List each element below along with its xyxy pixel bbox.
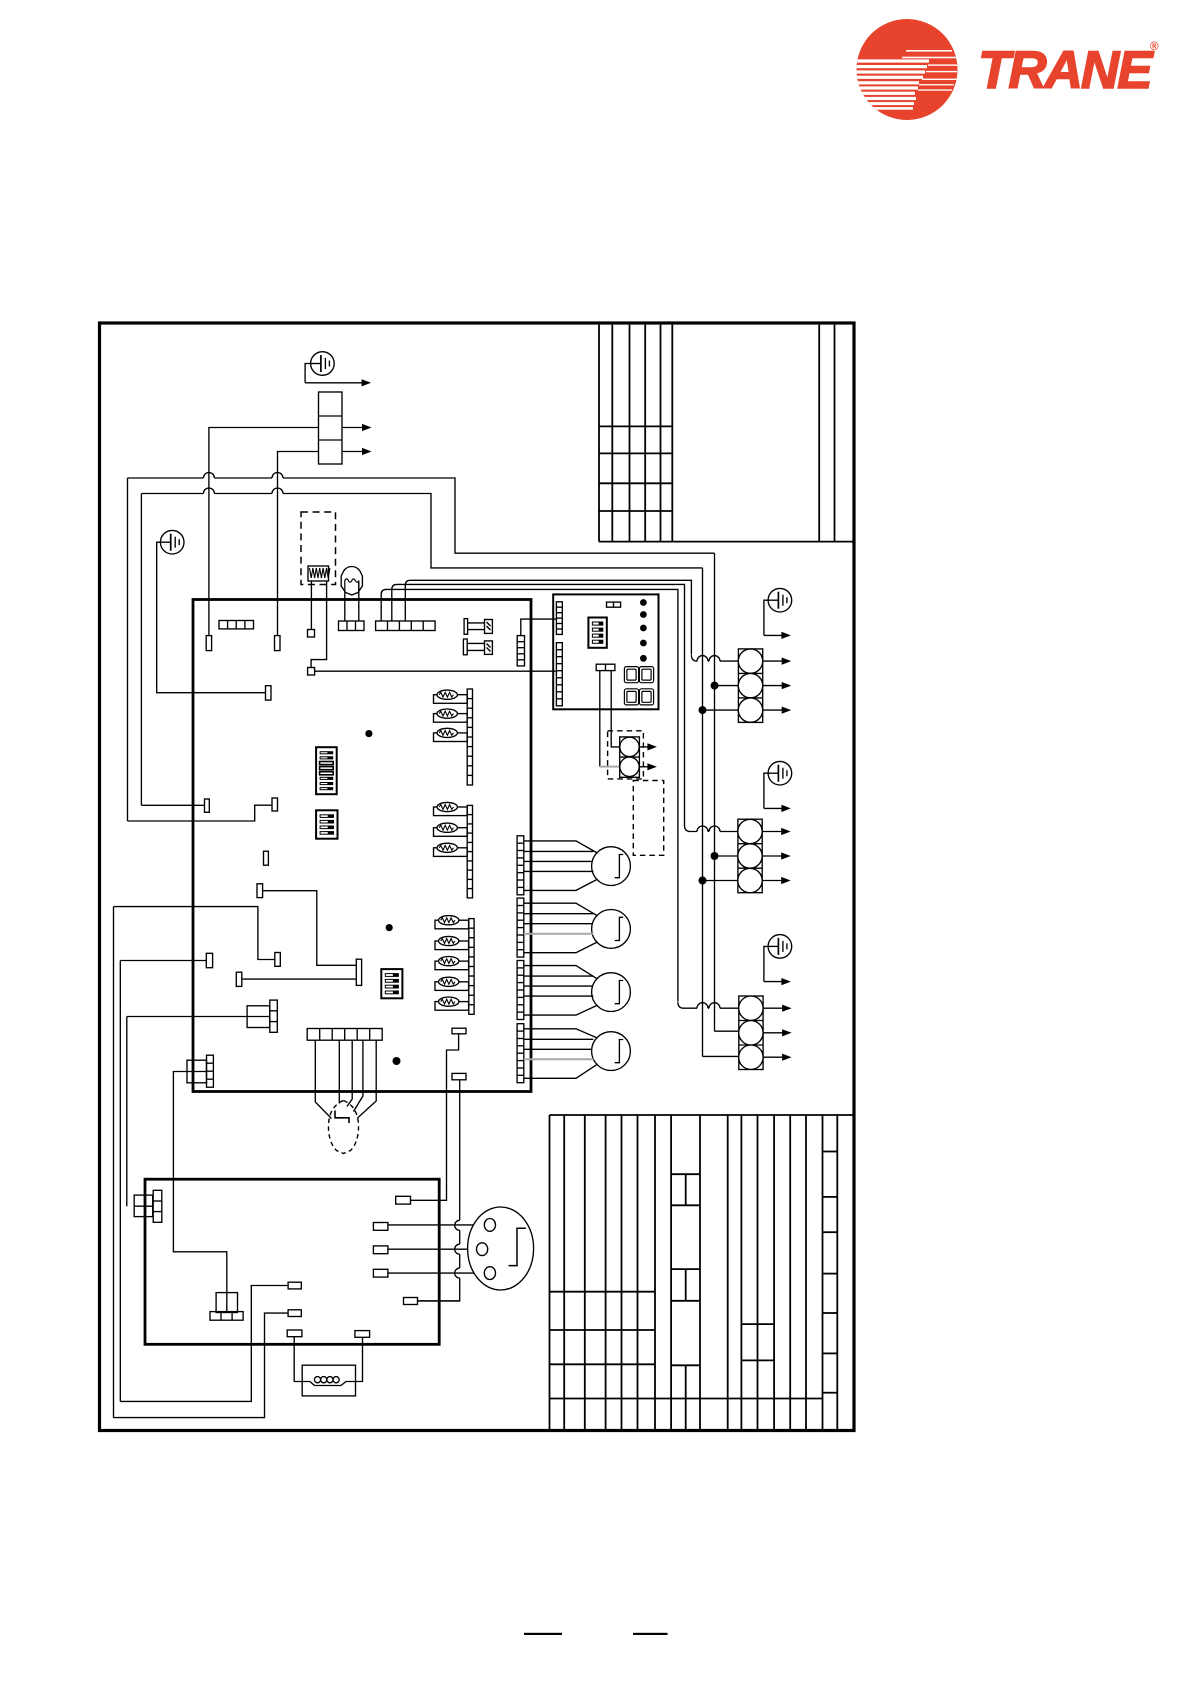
DIP switch SW2: [316, 810, 337, 838]
flame sensor (dashed): [328, 1101, 358, 1154]
arrow from TB1 row2: [342, 427, 364, 429]
CN1 pin 1: [484, 1219, 495, 1232]
CN1 pin 2: [477, 1243, 488, 1256]
wire P3 to pin3: [388, 1272, 485, 1274]
wire W5: [405, 580, 691, 654]
terminal A: [205, 799, 210, 812]
svg-text:TRANE: TRANE: [978, 41, 1154, 100]
connector L (edge cluster): [134, 1195, 153, 1217]
switch 1 wire fan: [524, 841, 598, 853]
wire TB1 row3 to vertical: [278, 452, 319, 636]
fuse bar C: [469, 919, 474, 1015]
wire V1 top to display board: [521, 619, 557, 636]
wire from G1 to arrow: [305, 364, 311, 383]
terminal B: [272, 798, 278, 811]
junction dot B1: [365, 730, 372, 737]
wire bus v1 to M2: [114, 1313, 289, 1418]
junction dot B3: [393, 1057, 401, 1065]
relay K1 arrows: [639, 746, 649, 748]
terminal C: [264, 851, 269, 865]
wire from GR1 to arrow: [764, 600, 768, 635]
left bus v3 with wire to connector J: [127, 1016, 247, 1018]
junction dot + wire CC1 bottom: [699, 706, 707, 714]
seven-segment display DS1: [624, 667, 638, 683]
DIP switch SW3: [381, 969, 402, 998]
comb wires to flame sensor: [315, 1040, 331, 1118]
junction dot + wire CC2 bottom: [699, 877, 707, 885]
wire W1: [128, 477, 204, 479]
footer line 1: [524, 1633, 562, 1635]
transformer TR1: [216, 1293, 237, 1313]
igniter terminal bar 3-cell: [339, 621, 365, 631]
igniter: [341, 567, 362, 596]
wire R2 stub: [418, 1300, 460, 1302]
wire W2 leg to terminal A: [141, 804, 204, 806]
relay K1 dashed box: [608, 731, 644, 779]
wire W2: [141, 493, 203, 495]
ground G1 top: [311, 352, 335, 376]
heater element HTR: [308, 566, 329, 581]
terminal P1: [373, 1223, 388, 1231]
wire W4: [392, 584, 685, 826]
wire H to E: [242, 978, 356, 980]
junction dot B2: [386, 924, 393, 931]
pressure switch SW2 circle: [592, 910, 631, 949]
bus vertical x714.5: [714, 553, 716, 1031]
induction coil box: [302, 1365, 355, 1396]
svg-text:®: ®: [1150, 41, 1159, 53]
fuse bar A: [467, 689, 472, 785]
terminal block TB1 (3-cell box): [319, 392, 343, 464]
terminal strip 4-cell top-left: [219, 621, 254, 629]
terminal T1: [452, 1028, 466, 1034]
edge connector bar 1: [517, 836, 524, 895]
vertical riser W2 left leg: [140, 494, 142, 806]
wire P1 to pin1: [388, 1224, 485, 1226]
display board output wires: [611, 671, 620, 747]
terminal D: [257, 884, 263, 898]
contactor CC1: [738, 649, 762, 723]
junction dot + wire CC2 mid: [711, 852, 719, 860]
terminal M1: [288, 1282, 301, 1289]
terminal R2: [404, 1298, 418, 1305]
junction dot + wire CC1 mid: [711, 682, 719, 690]
heater right leg to square S2: [311, 581, 327, 668]
jumper link J1: [464, 619, 468, 635]
display 2-cell rect top: [607, 602, 621, 607]
DIP switch SW1: [316, 747, 337, 794]
diagram outer border frame: [100, 323, 855, 1431]
display 2-cell rect mid: [596, 664, 615, 670]
terminal H: [236, 972, 242, 986]
display connector bar bottom (9): [556, 643, 562, 706]
wire D to E: [263, 891, 357, 966]
left bus v2 with wire to G: [120, 960, 206, 962]
vertical riser W1 left leg: [127, 478, 129, 821]
bus vertical x702.5: [702, 568, 704, 1057]
igniter legs: [344, 594, 346, 622]
CN1 actuator glyph: [509, 1228, 526, 1265]
switch 3 wire fan: [524, 966, 598, 980]
jumper link J2: [463, 639, 467, 655]
heater left leg to square S1: [310, 581, 312, 630]
wire M3 to coil: [294, 1337, 314, 1386]
comb connector bottom (6-cell): [307, 1029, 382, 1041]
edge connector bar 2: [517, 898, 524, 957]
wire S2 to display board connector: [315, 670, 557, 672]
edge connector bar 4: [517, 1024, 524, 1083]
wire into CC1 top: [691, 655, 697, 661]
wire bus v2 to M1: [120, 1286, 288, 1402]
terminal XL1: [206, 636, 211, 651]
fuse group C: [435, 920, 469, 929]
fuse bar B: [467, 805, 472, 898]
wire K to transformer: [173, 1072, 226, 1293]
connector J: [247, 1006, 270, 1028]
terminal G: [206, 953, 212, 967]
terminal P3: [373, 1269, 388, 1277]
footer line 2: [633, 1633, 668, 1635]
square S2: [308, 668, 315, 676]
terminal M4: [355, 1331, 370, 1338]
pressure switch SW1 circle: [592, 847, 631, 886]
circular plug connector CN1: [468, 1207, 534, 1290]
connector bar V1 (5-cell): [517, 636, 524, 666]
legend table bottom-right: [550, 1115, 854, 1430]
display LEDs: [640, 599, 647, 606]
terminal M2: [288, 1310, 301, 1317]
dashed enclosure around heater: [301, 512, 336, 585]
wire from G2 into board: [157, 542, 266, 693]
contactor CC3: [739, 996, 763, 1070]
main control board outline: [193, 600, 531, 1092]
terminal E (tall): [356, 959, 361, 985]
power terminal bar 5-cell: [376, 621, 436, 631]
wire T2 down with hops to R2: [459, 1080, 461, 1221]
wire from GR2 to arrow: [764, 773, 768, 808]
wire P2 to pin2: [388, 1248, 477, 1250]
terminal R1: [396, 1196, 411, 1204]
wire into CC3 top: [678, 1002, 697, 1008]
wire TB1 row2 to vertical: [209, 428, 319, 636]
wire W3: [381, 589, 678, 1001]
edge connector bar 3: [517, 961, 524, 1020]
coil: [315, 1385, 342, 1387]
display DIP switch SW4: [588, 618, 606, 648]
dashed expansion box: [633, 781, 663, 856]
ground GR1 right: [768, 588, 792, 612]
arrow from TB1 row3: [342, 451, 364, 453]
switch 4 wire fan: [524, 1029, 598, 1038]
display board outline: [553, 594, 658, 709]
switch 2 wire fan: [524, 903, 598, 916]
connector K: [187, 1060, 207, 1083]
wire W1 leg to terminal B: [128, 805, 273, 821]
legend table top-right: [599, 325, 853, 542]
wire coil to M4: [341, 1337, 363, 1385]
ground GR3 right: [768, 935, 792, 959]
terminal P2: [373, 1246, 388, 1254]
square S1: [308, 630, 315, 638]
relay K1 contacts: [620, 737, 640, 777]
terminal at G2 wire end: [266, 686, 272, 700]
Trane logo circle: [857, 19, 958, 120]
fuse group B: [434, 807, 468, 816]
ground GR2 right: [768, 761, 792, 785]
ground G2 left: [160, 530, 184, 554]
contactor CC2: [738, 819, 762, 893]
wire CC3 mid from bus x714.5: [715, 1030, 739, 1032]
wire into CC2 top: [685, 826, 698, 832]
wire T1 down to relay board R1: [411, 1034, 459, 1201]
pressure switch SW3 circle: [592, 973, 631, 1012]
ignition module outline: [145, 1179, 439, 1344]
terminal F: [275, 953, 281, 967]
CN1 pin 3: [484, 1267, 495, 1280]
terminal T2: [452, 1073, 466, 1079]
terminal XL2: [275, 636, 281, 651]
fuse group A: [434, 695, 468, 704]
wire CC3 bottom from bus x702.5: [703, 1055, 739, 1057]
wire from GR3 to arrow: [764, 946, 768, 981]
pressure switch SW4 circle: [592, 1032, 631, 1071]
display connector bar top (6): [556, 602, 562, 635]
left bus v1 with wire to F: [114, 907, 275, 960]
terminal M3: [287, 1330, 302, 1337]
